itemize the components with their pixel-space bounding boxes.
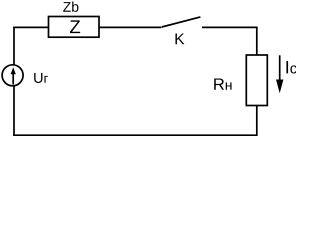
label K: [175, 34, 184, 45]
impedance Z box: [49, 17, 100, 38]
wire right vertical upper: [256, 27, 258, 56]
source U1 circle: [2, 65, 23, 86]
wire switch to top-right corner: [202, 26, 258, 28]
switch K blade: [162, 17, 201, 27]
wire left vertical lower: [13, 86, 15, 137]
label Rн: [214, 78, 231, 89]
label Uг: [34, 73, 48, 83]
label Zb: [63, 2, 78, 12]
label Z value: [70, 20, 80, 33]
wire right vertical lower: [256, 106, 258, 137]
source U1 arrow: [12, 71, 14, 85]
label Iс: [286, 61, 296, 74]
wire top-left horizontal: [13, 26, 48, 28]
wire from Z box to switch: [99, 26, 162, 28]
wire bottom horizontal: [13, 134, 257, 136]
resistor Rн box: [246, 55, 267, 106]
wire left vertical upper: [13, 27, 15, 65]
current arrow Iс: [279, 55, 281, 81]
